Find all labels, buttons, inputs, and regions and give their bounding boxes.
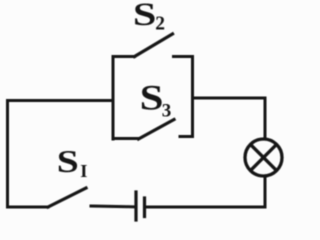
wire: right vertical below lamp [264,177,267,208]
switch S2 blade [135,34,173,57]
wire: parallel box left vertical [112,57,115,140]
wire: bottom left segment to switch S1 pivot [8,206,49,209]
lamp L1 cross stroke 2 [251,145,277,171]
switch S2 right contact wire [174,55,193,58]
switch S3 left contact wire [113,137,139,140]
battery long plate [134,192,137,220]
switch S2 left contact wire [113,55,135,58]
wire: battery to bottom right corner [147,206,266,209]
switch S1 blade [48,188,86,207]
switch S1 right contact wire [91,205,134,209]
wire: left horizontal from parallel box to outer left side [8,99,114,102]
wire: right vertical above lamp [264,98,267,139]
svg-text:I: I [80,161,87,181]
svg-text:S: S [140,78,164,118]
lamp L1 cross stroke 1 [251,145,277,171]
svg-text:S: S [57,143,79,179]
svg-text:3: 3 [162,101,172,122]
wire: parallel box right vertical [191,57,194,137]
lamp L1 circle [245,139,282,176]
wire: outer left vertical [6,101,9,208]
wire: right horizontal from lamp branch to parallel box [193,97,266,100]
svg-text:S: S [133,0,157,33]
switch S3 blade [139,120,175,140]
svg-text:2: 2 [155,14,165,35]
battery short plate [143,198,146,217]
switch S3 right contact wire [180,135,193,138]
